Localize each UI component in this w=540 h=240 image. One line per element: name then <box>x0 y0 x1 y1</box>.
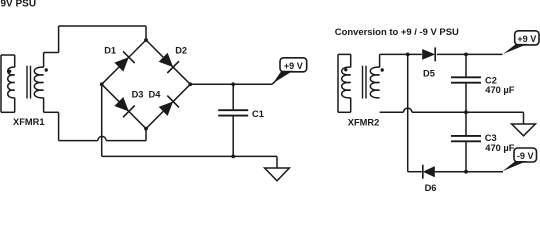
wire D6 branch vertical <box>407 54 409 171</box>
svg-text:D2: D2 <box>175 46 187 56</box>
wire bridge edge T-R <box>146 40 190 84</box>
svg-text:D4: D4 <box>149 90 162 100</box>
svg-text:D1: D1 <box>104 46 116 56</box>
wire XFMR1 primary left rail <box>0 55 2 112</box>
XFMR2 phasing dot primary <box>344 68 347 71</box>
wire <box>465 54 467 77</box>
node C2 top <box>464 53 468 57</box>
flag -9 V output <box>514 148 537 162</box>
wire XFMR2 primary left rail <box>337 54 339 112</box>
wire <box>465 141 467 171</box>
wire XFMR2 primary bottom <box>338 111 351 113</box>
wire secondary top <box>43 53 45 68</box>
diode D1 <box>114 57 128 71</box>
wire bridge edge L-B <box>102 84 146 128</box>
ground symbol <box>265 168 290 181</box>
wire <box>58 112 60 140</box>
wire <box>44 52 59 54</box>
svg-text:-9 V: -9 V <box>517 151 534 161</box>
svg-text:470 µF: 470 µF <box>485 143 514 153</box>
svg-text:D5: D5 <box>423 69 435 79</box>
transformer XFMR1 secondary coil <box>34 67 43 98</box>
svg-text:9V PSU: 9V PSU <box>1 0 37 10</box>
XFMR1 phasing dot primary <box>8 70 11 73</box>
flag +9 V output <box>280 58 307 72</box>
wire to flag <box>272 79 278 85</box>
wire <box>14 98 16 113</box>
svg-text:Conversion to +9 / -9 V PSU: Conversion to +9 / -9 V PSU <box>335 27 459 38</box>
wire bottom ground rail <box>102 155 277 157</box>
wire <box>58 26 60 53</box>
wire <box>59 140 98 142</box>
svg-text:XFMR2: XFMR2 <box>348 118 380 128</box>
wire <box>145 26 147 40</box>
wire bottom rail <box>408 171 422 173</box>
diode D3 <box>114 97 128 111</box>
ground symbol right <box>512 124 536 136</box>
node bridge bottom <box>144 127 148 131</box>
wire <box>106 140 146 142</box>
svg-text:470 µF: 470 µF <box>485 85 514 95</box>
node bridge right <box>188 82 192 86</box>
wire hop over D6 branch <box>404 108 412 112</box>
wire <box>232 84 234 110</box>
transformer XFMR2 primary coil <box>342 67 351 98</box>
wire <box>14 55 16 67</box>
node C3 bottom <box>464 170 468 174</box>
wire ground stub <box>276 156 278 168</box>
capacitor C1 <box>218 109 248 111</box>
wire XFMR1 primary bottom <box>1 111 15 113</box>
svg-text:C1: C1 <box>252 109 264 119</box>
wire <box>350 54 352 67</box>
flag +9 V output right <box>515 31 539 45</box>
svg-text:D6: D6 <box>425 183 437 192</box>
wire mid rail <box>380 111 404 113</box>
transformer XFMR1 primary coil <box>8 67 15 98</box>
wire top rail after D5 <box>437 53 503 55</box>
transformer XFMR2 secondary coil <box>370 67 379 98</box>
XFMR1 phasing dot secondary <box>45 68 48 71</box>
wire hop over ground wire <box>98 136 106 140</box>
wire <box>145 129 147 141</box>
diode D6 <box>423 166 435 177</box>
node mid rail <box>464 110 468 114</box>
node C1 top <box>231 82 235 86</box>
capacitor C3 <box>451 135 481 137</box>
wire ground stub right <box>523 112 525 124</box>
diode D2 <box>159 53 173 67</box>
wire <box>232 116 234 157</box>
node C1 bottom <box>231 155 235 159</box>
node bridge left <box>100 82 104 86</box>
node top rail / D6 branch <box>406 53 410 57</box>
XFMR1 core <box>26 66 28 99</box>
wire XFMR2 primary top <box>338 53 351 55</box>
wire bottom rail <box>435 171 503 173</box>
wire +9V rail <box>190 83 272 85</box>
wire bridge edge L-T <box>102 40 146 84</box>
wire from bridge left node down <box>101 84 103 156</box>
wire <box>465 83 467 136</box>
XFMR2 phasing dot secondary <box>381 68 384 71</box>
node bridge top <box>144 38 148 42</box>
wire bridge edge B-R <box>146 84 190 128</box>
svg-text:+9 V: +9 V <box>517 34 536 44</box>
wire top rail <box>380 53 422 55</box>
wire XFMR1 primary top <box>1 54 15 56</box>
XFMR2 core <box>362 66 364 99</box>
svg-text:+9 V: +9 V <box>284 61 303 71</box>
diode D4 <box>159 102 173 116</box>
svg-text:D3: D3 <box>132 90 144 100</box>
wire <box>44 111 59 113</box>
capacitor C2 <box>451 76 481 78</box>
diode D5 <box>422 49 435 60</box>
wire secondary top <box>379 54 381 67</box>
wire secondary bottom <box>43 98 45 113</box>
wire <box>350 98 352 113</box>
svg-text:C3: C3 <box>485 133 497 143</box>
svg-text:XFMR1: XFMR1 <box>13 117 45 127</box>
wire top run to bridge <box>59 25 146 27</box>
wire mid rail to ground <box>412 111 524 113</box>
